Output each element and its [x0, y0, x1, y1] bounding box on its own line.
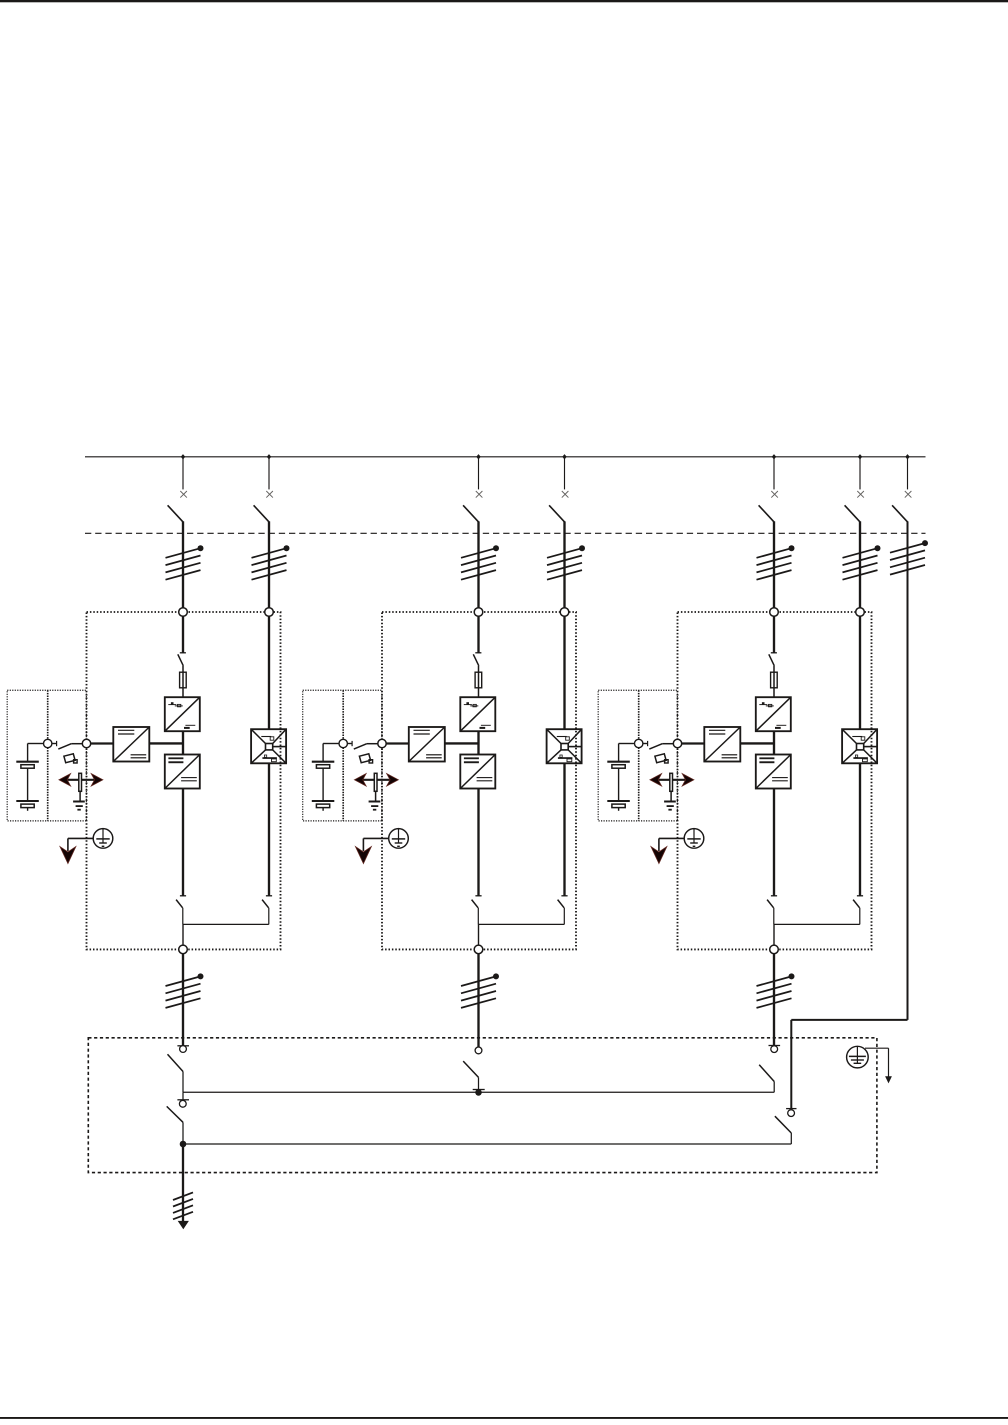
node marker x-cross mains feeder maintenance bypass — [905, 491, 912, 498]
page top border bar — [0, 0, 1008, 2]
static bypass switch unit 1 — [251, 729, 286, 763]
wire unit 3 static switch output — [859, 763, 861, 896]
terminal circle unit 2 rectifier input — [474, 608, 483, 617]
junction dot mains feeder unit 2 bypass on input bus — [562, 454, 566, 459]
protective earth terminal unit 1 — [93, 829, 113, 849]
wire unit 3 bypass feeder (below breaker) — [859, 521, 861, 608]
cable marker unit 1 rectifier input (3ph+N) — [166, 545, 204, 580]
cable marker unit 2 rectifier input (3ph+N) — [461, 545, 499, 580]
wire unit 2 battery input to converter — [386, 742, 409, 744]
cable marker unit 3 output (3ph+N) — [757, 973, 795, 1008]
wire battery 1 positive lead — [28, 744, 44, 762]
switch blade unit 3 output — [759, 1065, 774, 1082]
wire mains feeder unit 2 bypass drop from bus — [564, 457, 566, 490]
connector contact bar unit 1 output — [177, 1045, 189, 1047]
switch unit 3 inverter output isolator — [767, 896, 777, 908]
wire maintenance bypass to bus 2 — [790, 1133, 792, 1144]
switch unit 2 bypass output isolator — [558, 896, 568, 908]
breaker switch mains feeder unit 3 bypass (open blade) — [845, 505, 860, 522]
junction dot unit 2 on bus 1 — [475, 1089, 482, 1096]
PE down arrow unit 2 — [356, 847, 372, 864]
cable marker unit 1 output (3ph+N) — [166, 973, 204, 1008]
wire maintenance bypass horizontal run — [791, 1019, 907, 1021]
wire unit 2 inverter output — [477, 789, 479, 896]
junction dot mains feeder unit 1 rectifier on input bus — [181, 454, 185, 459]
battery switch 2 blade — [354, 744, 378, 749]
input bus (mains) — [85, 456, 926, 458]
fuse unit 3 rectifier input — [771, 672, 778, 688]
wire unit 1 link to earth — [79, 791, 81, 801]
wire unit 3 inverter output to tie — [773, 908, 775, 925]
output switchboard (dashed enclosure) — [88, 1038, 877, 1173]
junction dot output on bus 2 — [180, 1141, 187, 1148]
battery fuse 3 (tilted link) — [655, 754, 668, 763]
wire unit 1 output cable run — [182, 954, 184, 1046]
junction dot mains feeder unit 3 bypass on input bus — [858, 454, 862, 459]
withdrawable link unit 2 — [374, 773, 377, 791]
breaker switch mains feeder unit 1 bypass (open blade) — [254, 505, 269, 522]
wire switchboard PE lead — [865, 1048, 889, 1077]
inverter unit 3 (DC/AC converter) — [756, 755, 791, 789]
PE down arrow switchboard — [885, 1076, 892, 1083]
switch blade output feeder — [167, 1106, 183, 1122]
unit 3 cabinet border segment across static switch — [871, 728, 873, 766]
wire unit 2 rectifier input inside cabinet — [477, 616, 479, 653]
wire unit 2 bypass output to tie — [563, 908, 565, 925]
withdrawable link unit 1 — [79, 773, 82, 791]
UPS unit 1 cabinet (dotted enclosure) — [87, 612, 281, 949]
wire unit 3 DC link — [773, 731, 775, 754]
rectifier unit 1 (AC/DC converter) — [165, 697, 200, 731]
wire battery 3 positive lead — [619, 744, 635, 762]
wire battery 3 negative stub — [618, 808, 620, 811]
battery cabinet 1 inner divider (dotted) — [47, 690, 49, 821]
wire unit 1 DC link — [182, 731, 184, 754]
junction dot mains feeder unit 1 bypass on input bus — [267, 454, 271, 459]
switch unit 1 bypass output isolator — [262, 896, 272, 908]
terminal circle unit 2 bypass input — [560, 608, 569, 617]
node marker x-cross mains feeder unit 2 rectifier — [476, 491, 483, 498]
battery 2 cell 2 — [312, 801, 335, 808]
terminal circle unit 2 battery terminal (divider) — [339, 739, 347, 747]
terminal circle unit 1 battery input (cabinet wall) — [82, 739, 90, 747]
static bypass switch unit 2 — [547, 729, 582, 763]
wire unit 2 output stub — [478, 924, 480, 945]
withdrawable link unit 3 — [670, 773, 673, 791]
wire maintenance bypass vertical run — [907, 521, 909, 1020]
wire unit 2 static switch output — [563, 763, 565, 896]
protective earth terminal switchboard — [847, 1046, 869, 1068]
wire unit 3 bypass output to tie — [859, 908, 861, 925]
wire unit 2 output tie bar — [478, 923, 564, 925]
wire unit 2 into fuse — [478, 666, 480, 698]
wire unit 1 output stub — [182, 924, 184, 945]
wire load output — [182, 1144, 184, 1223]
wire unit 2 output cable run — [477, 954, 479, 1047]
wire unit 3 output stub — [773, 924, 775, 945]
load output arrow — [178, 1221, 189, 1229]
terminal circle unit 1 rectifier input — [179, 608, 188, 617]
wire output feeder to bus 2 — [182, 1122, 184, 1144]
wire mains feeder unit 3 rectifier drop from bus — [773, 457, 775, 490]
wire unit 3 rectifier input inside cabinet — [773, 616, 775, 653]
wire unit 3 battery input to converter — [682, 742, 705, 744]
inverter unit 2 (DC/AC converter) — [460, 755, 495, 789]
switch blade unit 2 output — [463, 1061, 478, 1077]
switch unit 1 rectifier isolator — [178, 653, 186, 666]
fuse unit 1 rectifier input — [180, 672, 187, 688]
switch blade unit 1 output — [168, 1054, 184, 1071]
battery 1 cell 1 — [16, 762, 39, 769]
wire unit 2 inverter output to tie — [477, 908, 479, 925]
wire mains feeder unit 2 rectifier drop from bus — [478, 457, 480, 490]
breaker switch mains feeder unit 2 bypass (open blade) — [549, 505, 564, 522]
wire unit 3 output tie bar — [774, 923, 860, 925]
junction dot mains feeder unit 3 rectifier on input bus — [772, 454, 776, 459]
wire unit 1 battery converter to DC link — [149, 742, 183, 744]
node marker x-cross mains feeder unit 3 rectifier — [771, 491, 778, 498]
node marker x-cross mains feeder unit 3 bypass — [857, 491, 864, 498]
rectifier unit 2 (AC/DC converter) — [460, 697, 495, 731]
terminal circle unit 3 output — [770, 945, 779, 954]
breaker switch mains feeder maintenance bypass (open blade) — [892, 505, 907, 522]
wire mains feeder unit 1 rectifier drop from bus — [182, 457, 184, 490]
battery switch 1 blade — [58, 744, 82, 749]
wire mains feeder maintenance bypass drop from bus — [907, 457, 909, 490]
withdraw double arrow unit 3 — [650, 774, 694, 786]
battery fuse 2 (tilted link) — [359, 754, 372, 763]
wire unit 2 battery converter to DC link — [445, 742, 479, 744]
terminal circle unit 2 battery input (cabinet wall) — [378, 739, 386, 747]
battery 3 cell 1 — [607, 762, 630, 769]
connector socket circle unit 2 output — [475, 1047, 482, 1054]
wire unit 1 bypass feeder (below breaker) — [268, 521, 270, 608]
inverter unit 1 (DC/AC converter) — [165, 755, 200, 789]
battery fuse 1 (tilted link) — [64, 754, 77, 763]
cable marker unit 3 rectifier input (3ph+N) — [757, 545, 795, 580]
wire unit 2 DC link — [477, 731, 479, 754]
wire battery 2 positive lead — [323, 744, 339, 762]
battery cabinet 1 (dotted enclosure) — [7, 690, 86, 821]
junction dot mains feeder maintenance bypass on input bus — [905, 454, 909, 459]
terminal circle unit 3 bypass input — [856, 608, 865, 617]
protective earth terminal unit 3 — [684, 829, 704, 849]
wire unit 3 inverter output — [773, 789, 775, 896]
wire unit 3 into fuse — [773, 666, 775, 698]
connector socket circle unit 1 output — [180, 1046, 187, 1053]
page bottom border line — [0, 1417, 1008, 1419]
wire unit 1 rectifier input inside cabinet — [182, 616, 184, 653]
connector contact bar unit 3 output — [769, 1045, 781, 1047]
wire unit 1 output tie bar — [183, 923, 269, 925]
battery switch 3 blade — [649, 744, 673, 749]
switch unit 3 rectifier isolator — [769, 653, 777, 666]
wire unit 3 to output bus 1 — [773, 1082, 775, 1093]
junction dot mains feeder unit 2 rectifier on input bus — [476, 454, 480, 459]
cable marker unit 1 bypass input (3ph+N) — [252, 545, 290, 580]
wire unit 3 output cable run — [773, 954, 775, 1046]
wire unit 1 into fuse — [182, 666, 184, 698]
withdraw double arrow unit 1 — [59, 774, 103, 786]
cable marker unit 2 output (3ph+N) — [461, 973, 499, 1008]
breaker switch mains feeder unit 3 rectifier (open blade) — [759, 505, 774, 522]
wire unit 1 rectifier feeder (below breaker) — [182, 521, 184, 608]
wire maintenance bypass down to switchboard — [790, 1020, 792, 1109]
connector contact bar output feeder — [177, 1099, 189, 1101]
switch unit 1 inverter output isolator — [176, 896, 186, 908]
cable marker maintenance bypass (3ph+N) — [890, 540, 928, 575]
unit 2 cabinet border segment across static switch — [575, 728, 577, 766]
unit 1 cabinet border segment across static switch — [280, 728, 282, 766]
wire unit 1 PE lead — [68, 838, 93, 851]
rectifier unit 3 (AC/DC converter) — [756, 697, 791, 731]
battery converter unit 3 (DC/DC) — [704, 727, 740, 762]
battery cabinet 2 (dotted enclosure) — [303, 690, 382, 821]
withdraw double arrow unit 2 — [354, 774, 398, 786]
battery cabinet 3 (dotted enclosure) — [598, 690, 677, 821]
wire battery 1 inter-cell — [27, 768, 29, 801]
mains boundary dashed line — [85, 532, 926, 534]
PE down arrow unit 1 — [60, 847, 76, 864]
switch unit 3 bypass output isolator — [853, 896, 863, 908]
terminal circle unit 1 output — [179, 945, 188, 954]
output bus 1 (parallel bus) — [183, 1091, 774, 1093]
wire battery 2 negative stub — [322, 808, 324, 811]
cable marker load output (3ph+N) — [173, 1192, 193, 1219]
connector socket circle unit 3 output — [771, 1046, 778, 1053]
battery switch 3 fixed contact — [643, 741, 648, 746]
cable marker unit 3 bypass input (3ph+N) — [843, 545, 881, 580]
wire unit 1 bypass output to tie — [268, 908, 270, 925]
connector socket circle output feeder — [179, 1100, 186, 1107]
wire mains feeder unit 3 bypass drop from bus — [859, 457, 861, 490]
wire unit 2 link to earth — [375, 791, 377, 801]
UPS unit 3 cabinet (dotted enclosure) — [678, 612, 872, 949]
earth symbol unit 3 battery mid-point — [664, 802, 676, 810]
fuse unit 2 rectifier input — [475, 672, 482, 688]
protective earth terminal unit 2 — [389, 829, 409, 849]
battery converter unit 2 (DC/DC) — [409, 727, 445, 762]
node marker x-cross mains feeder unit 1 rectifier — [180, 491, 187, 498]
static bypass switch unit 3 — [842, 729, 877, 763]
wire battery 3 inter-cell — [618, 768, 620, 801]
wire unit 2 bypass to static switch — [563, 616, 565, 729]
connector contact bar maintenance bypass — [786, 1108, 796, 1110]
wire unit 1 bypass to static switch — [268, 616, 270, 729]
wire unit 3 battery converter to DC link — [740, 742, 774, 744]
node marker x-cross mains feeder unit 2 bypass — [562, 491, 569, 498]
battery switch 2 fixed contact — [347, 741, 352, 746]
terminal circle unit 1 bypass input — [265, 608, 274, 617]
switch blade maintenance bypass — [775, 1116, 791, 1133]
wire unit 2 rectifier feeder (below breaker) — [477, 521, 479, 608]
earth symbol unit 2 battery mid-point — [369, 802, 381, 810]
terminal circle unit 3 rectifier input — [770, 608, 779, 617]
earth symbol unit 1 battery mid-point — [73, 802, 85, 810]
connector socket circle maintenance bypass — [788, 1110, 795, 1117]
wire unit 1 to output bus 1 — [182, 1072, 184, 1093]
terminal circle unit 2 output — [474, 945, 483, 954]
switch unit 2 rectifier isolator — [473, 653, 481, 666]
wire unit 3 bypass to static switch — [859, 616, 861, 729]
output bus 2 (maintenance bypass bus) — [183, 1143, 791, 1145]
wire unit 1 static switch output — [268, 763, 270, 896]
battery cabinet 3 inner divider (dotted) — [638, 690, 640, 821]
wire unit 1 inverter output — [182, 789, 184, 896]
battery converter unit 1 (DC/DC) — [113, 727, 149, 762]
breaker switch mains feeder unit 2 rectifier (open blade) — [463, 505, 478, 522]
PE down arrow unit 3 — [651, 847, 667, 864]
battery 3 cell 2 — [607, 801, 630, 808]
wire battery 2 inter-cell — [322, 768, 324, 801]
wire unit 3 link to earth — [670, 791, 672, 801]
terminal circle unit 3 battery terminal (divider) — [635, 739, 643, 747]
terminal circle unit 1 battery terminal (divider) — [44, 739, 52, 747]
wire unit 1 battery input to converter — [91, 742, 114, 744]
switch unit 2 inverter output isolator — [472, 896, 482, 908]
wire unit 2 bypass feeder (below breaker) — [563, 521, 565, 608]
wire mains feeder unit 1 bypass drop from bus — [268, 457, 270, 490]
wire unit 2 PE lead — [363, 838, 388, 851]
battery 2 cell 1 — [312, 762, 335, 769]
wire between bus 1 and output feeder connector — [182, 1092, 184, 1100]
UPS unit 2 cabinet (dotted enclosure) — [382, 612, 576, 949]
wire unit 3 rectifier feeder (below breaker) — [773, 521, 775, 608]
node marker x-cross mains feeder unit 1 bypass — [266, 491, 273, 498]
wire battery 1 negative stub — [27, 808, 29, 811]
wire unit 3 PE lead — [659, 838, 684, 851]
breaker switch mains feeder unit 1 rectifier (open blade) — [168, 505, 183, 522]
wire unit 2 to output bus 1 — [478, 1077, 480, 1092]
battery switch 1 fixed contact — [52, 741, 57, 746]
connector contact bar unit 2 at bus 1 — [473, 1089, 485, 1091]
cable marker unit 2 bypass input (3ph+N) — [547, 545, 585, 580]
terminal circle unit 3 battery input (cabinet wall) — [673, 739, 681, 747]
battery 1 cell 2 — [16, 801, 39, 808]
battery cabinet 2 inner divider (dotted) — [342, 690, 344, 821]
wire unit 1 inverter output to tie — [182, 908, 184, 925]
